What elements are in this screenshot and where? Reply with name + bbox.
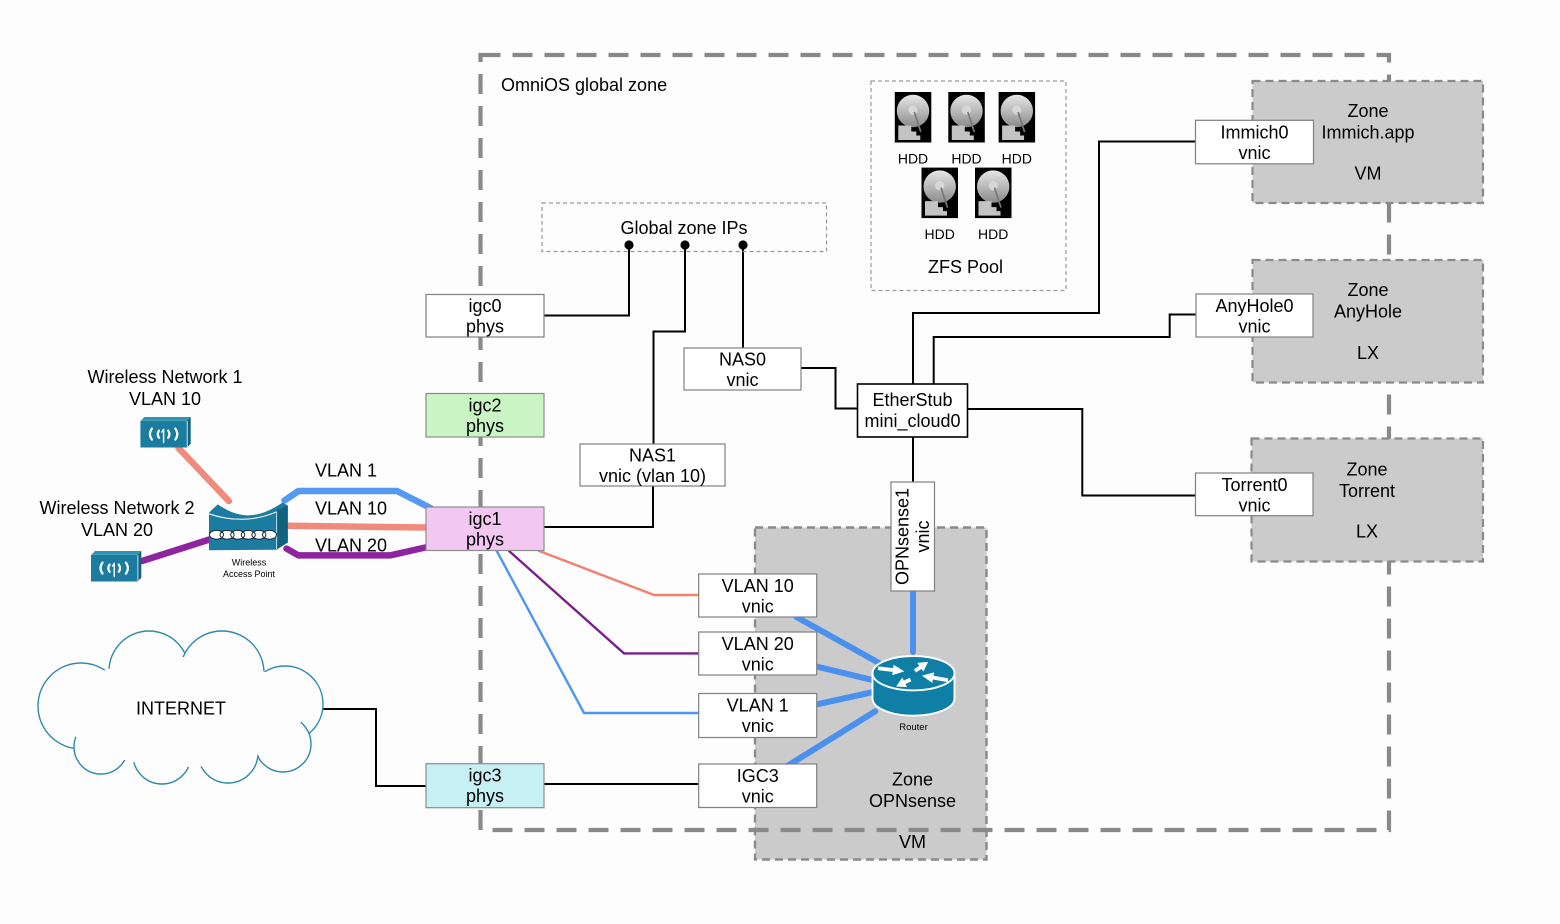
svg-text:HDD: HDD (1002, 151, 1032, 167)
HDD disk 5 (975, 168, 1012, 219)
igc0 phys box (426, 295, 544, 338)
svg-text:VM: VM (1355, 164, 1382, 184)
wire igc0 to global zone IP dot (544, 245, 629, 316)
HDD disk 2 (948, 92, 985, 143)
svg-text:AnyHole0: AnyHole0 (1215, 296, 1293, 316)
svg-text:NAS0: NAS0 (719, 350, 766, 370)
thick blue link VLAN10 vnic to router (797, 617, 880, 663)
svg-text:Zone: Zone (1347, 280, 1388, 300)
Immich0 vnic box (1196, 120, 1314, 164)
VLAN 1 vnic box (699, 694, 817, 738)
svg-text:EtherStub: EtherStub (872, 390, 952, 410)
svg-text:vnic: vnic (1238, 317, 1270, 337)
svg-text:HDD: HDD (898, 151, 928, 167)
svg-text:AnyHole: AnyHole (1334, 302, 1402, 322)
thick salmon link wireless1 to AP (179, 448, 229, 501)
zone OPNsense box (755, 528, 987, 860)
svg-text:VLAN 10: VLAN 10 (315, 499, 387, 519)
svg-text:OPNsense: OPNsense (869, 791, 956, 811)
svg-text:LX: LX (1356, 522, 1378, 542)
INTERNET cloud (38, 631, 323, 784)
vlan1 thin blue line igc1 to VLAN1 vnic (497, 551, 699, 714)
AnyHole0 vnic box (1196, 294, 1313, 337)
wire EtherStub to Torrent0 (968, 409, 1196, 496)
HDD labels row 1 (898, 151, 1032, 243)
svg-text:Wireless Network 2: Wireless Network 2 (39, 498, 194, 518)
ZFS pool dashed box (871, 81, 1066, 291)
svg-text:VLAN 1: VLAN 1 (727, 696, 789, 716)
router icon (873, 656, 955, 716)
svg-text:IGC3: IGC3 (737, 766, 779, 786)
wire igc3 to IGC3 vnic (544, 783, 699, 785)
svg-text:OPNsense1: OPNsense1 (893, 488, 913, 585)
svg-text:phys: phys (466, 416, 504, 436)
svg-text:igc2: igc2 (468, 396, 501, 416)
svg-text:Wireless Network 1: Wireless Network 1 (87, 367, 242, 387)
igc1 phys box (426, 507, 544, 551)
zone Immich.app box (1253, 81, 1484, 203)
NAS0 vnic box (684, 348, 801, 390)
wireless endpoint 2 icon (91, 551, 141, 582)
igc2 phys box (426, 394, 544, 438)
thick blue link IGC3 vnic to router (788, 711, 875, 765)
IGC3 vnic box (699, 764, 817, 808)
svg-text:vnic: vnic (1238, 496, 1270, 516)
VLAN 10 vnic box (699, 574, 817, 617)
global zone IPs dashed box (542, 203, 827, 252)
svg-text:HDD: HDD (925, 226, 955, 242)
svg-text:VM: VM (899, 832, 926, 852)
Torrent0 vnic box (1196, 473, 1314, 516)
wire INTERNET to igc3 (323, 709, 426, 786)
svg-text:VLAN 20: VLAN 20 (722, 634, 794, 654)
svg-text:Access Point: Access Point (223, 569, 276, 579)
VLAN 20 vnic box (699, 632, 817, 675)
node dot 1 (624, 240, 633, 249)
svg-text:Wireless: Wireless (232, 558, 267, 568)
svg-text:vnic (vlan 10): vnic (vlan 10) (599, 466, 706, 486)
zone Torrent box (1252, 439, 1484, 562)
svg-text:Immich.app: Immich.app (1321, 123, 1414, 143)
HDD disk 3 (999, 92, 1036, 143)
thick blue link VLAN1 vnic to router (817, 692, 873, 704)
svg-text:VLAN 10: VLAN 10 (129, 389, 201, 409)
svg-text:igc1: igc1 (468, 509, 501, 529)
wire global zone IP dot to NAS1 top (654, 245, 686, 444)
svg-text:LX: LX (1357, 343, 1379, 363)
thick blue VLAN1 link AP to igc1 (285, 491, 431, 508)
EtherStub box (858, 384, 968, 437)
HDD disk 4 (922, 168, 959, 219)
svg-text:vnic: vnic (742, 787, 774, 807)
svg-text:OmniOS global zone: OmniOS global zone (501, 75, 667, 95)
svg-text:Zone: Zone (1346, 460, 1387, 480)
vlan20 thin purple line igc1 to VLAN20 vnic (509, 551, 699, 654)
zone AnyHole box (1253, 260, 1484, 383)
thick blue link VLAN20 vnic to router (817, 667, 875, 681)
svg-text:NAS1: NAS1 (629, 446, 676, 466)
svg-text:Zone: Zone (892, 770, 933, 790)
svg-text:phys: phys (466, 786, 504, 806)
wire global zone IP dot to NAS0 top (742, 245, 744, 348)
svg-text:Torrent: Torrent (1339, 481, 1395, 501)
svg-text:INTERNET: INTERNET (136, 699, 226, 719)
svg-text:Global zone IPs: Global zone IPs (620, 218, 747, 238)
svg-text:phys: phys (466, 317, 504, 337)
wireless access point icon (209, 503, 288, 551)
svg-text:phys: phys (466, 530, 504, 550)
wire EtherStub to AnyHole0 (934, 315, 1196, 385)
svg-text:Torrent0: Torrent0 (1221, 475, 1287, 495)
igc3 phys box (426, 764, 544, 808)
svg-text:VLAN 10: VLAN 10 (722, 576, 794, 596)
svg-text:vnic: vnic (742, 655, 774, 675)
NAS1 vnic box (580, 444, 725, 486)
wireless endpoint 1 icon (140, 417, 190, 448)
svg-text:vnic: vnic (742, 597, 774, 617)
thick purple VLAN20 link AP to igc1 (287, 547, 428, 555)
vlan10 thin salmon line igc1 to VLAN10 vnic (538, 551, 699, 596)
svg-text:Router: Router (899, 722, 928, 733)
node dot 3 (738, 240, 747, 249)
svg-text:vnic: vnic (913, 520, 933, 552)
svg-text:HDD: HDD (978, 226, 1008, 242)
svg-text:Zone: Zone (1347, 101, 1388, 121)
svg-text:Immich0: Immich0 (1220, 123, 1288, 143)
svg-text:mini_cloud0: mini_cloud0 (864, 411, 960, 432)
thick salmon VLAN10 link AP to igc1 (288, 526, 426, 528)
OPNsense1 vnic box (rotated text) (891, 482, 935, 591)
svg-text:VLAN 1: VLAN 1 (315, 461, 377, 481)
HDD disk 1 (895, 92, 932, 143)
node dot 2 (680, 240, 689, 249)
thick purple link wireless2 to AP (142, 539, 211, 561)
svg-text:vnic: vnic (726, 370, 758, 390)
svg-text:igc0: igc0 (468, 296, 501, 316)
wire NAS0 to EtherStub (801, 368, 858, 409)
svg-text:HDD: HDD (951, 151, 981, 167)
thick blue link OPNsense1 vnic to router (910, 589, 916, 652)
OmniOS global zone border (481, 55, 1390, 830)
svg-text:ZFS Pool: ZFS Pool (928, 257, 1003, 277)
svg-text:igc3: igc3 (468, 766, 501, 786)
wire EtherStub to OPNsense1 vnic (912, 437, 914, 482)
wire EtherStub to Immich0 (913, 142, 1196, 385)
svg-text:VLAN 20: VLAN 20 (315, 536, 387, 556)
wire igc1 to NAS1 bottom (544, 486, 653, 527)
svg-text:vnic: vnic (1238, 143, 1270, 163)
svg-text:vnic: vnic (742, 716, 774, 736)
svg-text:VLAN 20: VLAN 20 (81, 520, 153, 540)
